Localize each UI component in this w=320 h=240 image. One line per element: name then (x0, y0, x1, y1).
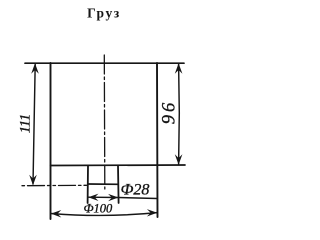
svg-text:Ф100: Ф100 (84, 202, 114, 216)
svg-text:Ф28: Ф28 (121, 182, 150, 199)
arrowhead 96 bottom (175, 154, 183, 165)
body left edge + Ф100 extension line (50, 63, 52, 219)
boss right edge + Ф28 extension line (117, 166, 120, 204)
dimension line 111 (33, 64, 35, 184)
body top edge + extension lines (25, 62, 184, 64)
arrowhead 96 top (175, 63, 183, 74)
body bottom edge + 96 extension line (51, 164, 186, 167)
centerline horizontal dash-dot at boss bottom (22, 184, 88, 186)
arrowhead Ф28 right (108, 194, 118, 201)
centerline vertical dash-dot (103, 55, 106, 189)
arrowhead Ф100 left (51, 210, 61, 218)
svg-text:Груз: Груз (87, 6, 121, 21)
dimension line 96 (178, 64, 181, 164)
svg-text:96: 96 (160, 100, 180, 125)
boss left edge + Ф28 extension line (87, 166, 89, 204)
arrowhead Ф100 right (147, 209, 157, 216)
arrowhead 111 bottom (29, 175, 37, 186)
svg-text:111: 111 (18, 114, 34, 134)
dimension line Ф100 (51, 213, 157, 216)
arrowhead 111 top (31, 63, 39, 74)
boss bottom edge (88, 183, 118, 185)
dimension line Ф28 with shelf (89, 197, 158, 198)
body right edge + Ф100 extension line (156, 63, 159, 217)
arrowhead Ф28 left (88, 194, 98, 201)
